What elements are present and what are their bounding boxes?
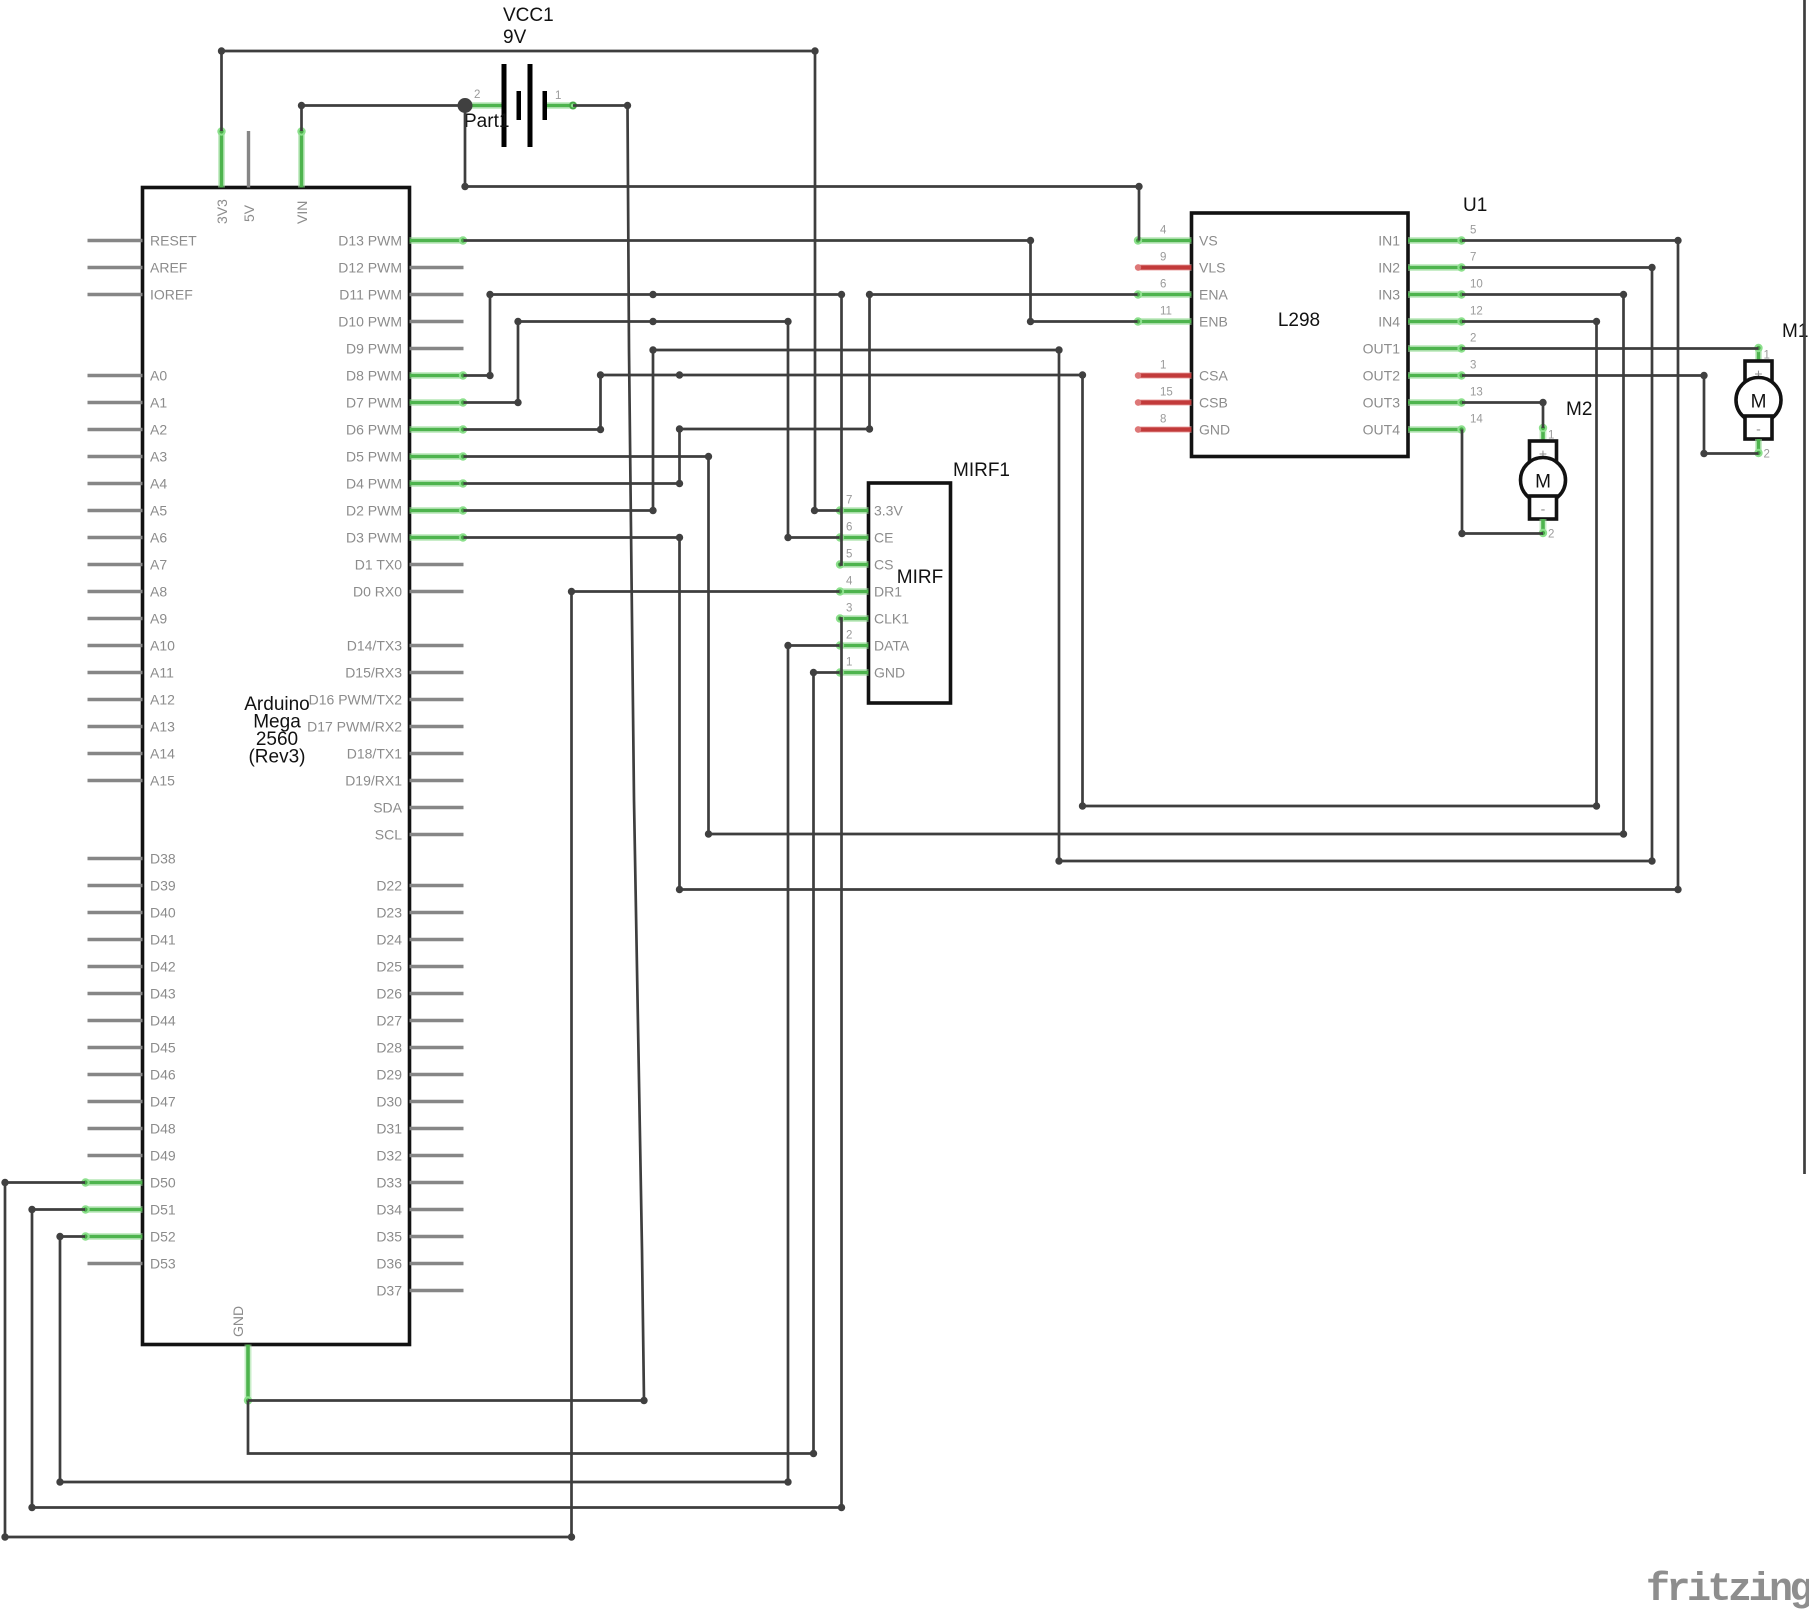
svg-text:VIN: VIN bbox=[294, 201, 310, 224]
junction bend MIRF-GND riser bbox=[810, 1450, 817, 1457]
battery VCC1 9V (Part1) bbox=[464, 5, 577, 147]
junction joint on D7-CE run bbox=[649, 318, 656, 325]
MIRF1 radio module body bbox=[869, 483, 951, 703]
svg-text:D19/RX1: D19/RX1 bbox=[345, 773, 402, 789]
svg-text:D39: D39 bbox=[150, 878, 176, 894]
svg-text:-: - bbox=[1541, 501, 1546, 517]
svg-text:IN4: IN4 bbox=[1378, 314, 1400, 330]
wire OUT3-M2.1 bbox=[1462, 403, 1543, 429]
MIRF pin 7 3.3V bbox=[840, 507, 869, 514]
junction bend D3 bbox=[676, 534, 683, 541]
svg-text:D9 PWM: D9 PWM bbox=[346, 341, 402, 357]
svg-text:1: 1 bbox=[1160, 360, 1166, 372]
junction bend 3V3 top-right bbox=[811, 47, 818, 54]
M2 plus terminal box bbox=[1530, 441, 1557, 464]
svg-text:13: 13 bbox=[1470, 387, 1483, 399]
svg-text:D42: D42 bbox=[150, 959, 176, 975]
svg-text:A1: A1 bbox=[150, 395, 167, 411]
M1 plus terminal box bbox=[1745, 361, 1772, 384]
Arduino pin D45 bbox=[88, 1046, 143, 1049]
Arduino pin D52 bbox=[85, 1233, 143, 1240]
junction bend D7 top bbox=[514, 318, 521, 325]
svg-text:OUT4: OUT4 bbox=[1363, 422, 1401, 438]
svg-text:IOREF: IOREF bbox=[150, 287, 193, 303]
Arduino pin D2 PWM bbox=[410, 507, 464, 514]
Arduino pin A6 bbox=[88, 536, 143, 539]
junction bend DR1 riser bbox=[568, 1533, 575, 1540]
svg-text:D16 PWM/TX2: D16 PWM/TX2 bbox=[309, 692, 403, 708]
MIRF pin 5 CS bbox=[840, 561, 869, 568]
svg-text:12: 12 bbox=[1470, 306, 1483, 318]
Arduino pin D31 bbox=[410, 1127, 464, 1130]
junction bend IN3 low-left bbox=[705, 830, 712, 837]
Arduino pin D11 PWM bbox=[410, 293, 464, 296]
Arduino pin D23 bbox=[410, 911, 464, 914]
junction bend M1.2 low bbox=[1700, 450, 1707, 457]
Arduino pin D37 bbox=[410, 1289, 464, 1292]
svg-text:A6: A6 bbox=[150, 530, 167, 546]
L298 pin 7 IN2 bbox=[1408, 264, 1462, 271]
Arduino pin A5 bbox=[88, 509, 143, 512]
svg-text:D10 PWM: D10 PWM bbox=[338, 314, 402, 330]
Arduino pin D14/TX3 bbox=[410, 644, 464, 647]
wire GND to MIRF GND bbox=[248, 673, 840, 1454]
svg-text:D12 PWM: D12 PWM bbox=[338, 260, 402, 276]
Arduino pin D27 bbox=[410, 1019, 464, 1022]
Arduino pin A14 bbox=[88, 752, 143, 755]
svg-text:D44: D44 bbox=[150, 1013, 176, 1029]
junction bend at CE bbox=[784, 534, 791, 541]
Arduino pin D10 PWM bbox=[410, 320, 464, 323]
junction bend 3V3 top-left bbox=[218, 47, 225, 54]
svg-text:CSA: CSA bbox=[1199, 368, 1228, 384]
svg-text:7: 7 bbox=[846, 495, 852, 507]
svg-text:5: 5 bbox=[846, 549, 852, 561]
svg-text:(Rev3): (Rev3) bbox=[248, 747, 305, 768]
battery plate short 2 bbox=[543, 91, 548, 120]
svg-text:2: 2 bbox=[846, 630, 852, 642]
Arduino pin 3V3 (connected) bbox=[218, 131, 225, 188]
wire 9V+ to VIN riser bbox=[302, 104, 466, 107]
M1 pin 1 leg bbox=[1755, 348, 1762, 362]
wire 9V+ VIN drop bbox=[300, 106, 303, 132]
wire D13-ENB bbox=[464, 241, 1138, 322]
svg-text:D18/TX1: D18/TX1 bbox=[347, 746, 402, 762]
L298 pin 14 OUT4 bbox=[1408, 426, 1462, 433]
svg-text:A0: A0 bbox=[150, 368, 167, 384]
junction bend at DATA bbox=[784, 642, 791, 649]
svg-text:SCL: SCL bbox=[375, 827, 402, 843]
svg-text:VS: VS bbox=[1199, 233, 1218, 249]
MIRF pin 2 DATA bbox=[840, 642, 869, 649]
svg-text:1: 1 bbox=[846, 657, 852, 669]
svg-text:D15/RX3: D15/RX3 bbox=[345, 665, 402, 681]
junction bend IN3 low-right bbox=[1620, 830, 1627, 837]
L298 motor driver U1 body bbox=[1192, 213, 1409, 457]
L298 pin 8 GND bbox=[1138, 426, 1192, 433]
Arduino pin D42 bbox=[88, 965, 143, 968]
Arduino pin GND (bottom, connected) bbox=[245, 1345, 252, 1402]
wire OUT4-M2.2 bbox=[1462, 430, 1543, 534]
wire 9V+ to L298 VS bbox=[465, 106, 1139, 241]
svg-text:D17 PWM/RX2: D17 PWM/RX2 bbox=[307, 719, 402, 735]
svg-text:D41: D41 bbox=[150, 932, 176, 948]
svg-text:D40: D40 bbox=[150, 905, 176, 921]
svg-text:fritzing: fritzing bbox=[1646, 1568, 1809, 1613]
L298 pin 13 OUT3 bbox=[1408, 399, 1462, 406]
svg-text:D29: D29 bbox=[376, 1067, 402, 1083]
wire D51-CLK1 bbox=[32, 619, 842, 1508]
junction bend M2.2 bbox=[1458, 530, 1465, 537]
svg-text:1: 1 bbox=[555, 90, 561, 102]
Arduino pin D39 bbox=[88, 884, 143, 887]
Arduino pin D3 PWM bbox=[410, 534, 464, 541]
junction bend D8 bbox=[486, 372, 493, 379]
Arduino pin A7 bbox=[88, 563, 143, 566]
svg-text:8: 8 bbox=[1160, 414, 1166, 426]
svg-text:A12: A12 bbox=[150, 692, 175, 708]
svg-text:A2: A2 bbox=[150, 422, 167, 438]
L298 pin 3 OUT2 bbox=[1408, 372, 1462, 379]
svg-text:A15: A15 bbox=[150, 773, 175, 789]
junction bend D50 bbox=[1, 1179, 8, 1186]
Arduino pin D35 bbox=[410, 1235, 464, 1238]
Arduino pin D12 PWM bbox=[410, 266, 464, 269]
svg-text:SDA: SDA bbox=[373, 800, 402, 816]
svg-text:10: 10 bbox=[1470, 279, 1483, 291]
junction bend D5 bbox=[705, 453, 712, 460]
junction bend IN4 low-right bbox=[1593, 802, 1600, 809]
Arduino pin D13 PWM bbox=[410, 237, 464, 244]
svg-text:D1 TX0: D1 TX0 bbox=[355, 557, 402, 573]
Arduino pin D17 PWM/RX2 bbox=[410, 725, 464, 728]
junction bend D8 top bbox=[486, 291, 493, 298]
svg-text:CSB: CSB bbox=[1199, 395, 1228, 411]
Arduino pin A3 bbox=[88, 455, 143, 458]
Arduino pin D43 bbox=[88, 992, 143, 995]
Arduino pin D5 PWM bbox=[410, 453, 464, 460]
svg-text:A8: A8 bbox=[150, 584, 167, 600]
wire 3V3-3.3V bbox=[222, 51, 840, 511]
Arduino pin D28 bbox=[410, 1046, 464, 1049]
svg-text:D33: D33 bbox=[376, 1175, 402, 1191]
svg-text:L298: L298 bbox=[1278, 310, 1320, 331]
svg-text:M2: M2 bbox=[1566, 399, 1592, 420]
Arduino pin D7 PWM bbox=[410, 399, 464, 406]
Arduino pin D53 bbox=[88, 1262, 143, 1265]
L298 pin 5 IN1 bbox=[1408, 237, 1462, 244]
svg-text:4: 4 bbox=[846, 576, 853, 588]
svg-text:MIRF1: MIRF1 bbox=[953, 460, 1010, 481]
wire D3-IN1 bbox=[464, 241, 1679, 890]
battery pin 2 leg bbox=[465, 102, 502, 109]
svg-text:9: 9 bbox=[1160, 252, 1166, 264]
L298 pin 6 ENA bbox=[1138, 291, 1192, 298]
MIRF pin 1 GND bbox=[840, 669, 869, 676]
svg-text:D31: D31 bbox=[376, 1121, 402, 1137]
junction joint on D8-CS run bbox=[649, 291, 656, 298]
svg-text:11: 11 bbox=[1160, 306, 1172, 318]
svg-text:VCC1: VCC1 bbox=[503, 5, 554, 26]
svg-text:5: 5 bbox=[1470, 225, 1476, 237]
junction bend D2 bbox=[649, 507, 656, 514]
svg-text:D11 PWM: D11 PWM bbox=[339, 287, 402, 303]
Arduino pin A11 bbox=[88, 671, 143, 674]
MIRF pin 4 DR1 bbox=[840, 588, 869, 595]
svg-text:D30: D30 bbox=[376, 1094, 402, 1110]
svg-text:D36: D36 bbox=[376, 1256, 402, 1272]
Arduino pin D30 bbox=[410, 1100, 464, 1103]
Arduino pin D47 bbox=[88, 1100, 143, 1103]
M2 pin 1 leg bbox=[1540, 428, 1547, 442]
svg-text:D32: D32 bbox=[376, 1148, 402, 1164]
svg-text:2: 2 bbox=[1470, 333, 1476, 345]
Arduino pin D4 PWM bbox=[410, 480, 464, 487]
junction bend at IN1 bbox=[1674, 237, 1681, 244]
svg-text:ENB: ENB bbox=[1199, 314, 1228, 330]
svg-text:D50: D50 bbox=[150, 1175, 176, 1191]
junction bend battery- bbox=[624, 102, 631, 109]
svg-text:IN2: IN2 bbox=[1378, 260, 1400, 276]
junction bend D4 up bbox=[676, 425, 683, 432]
svg-text:ENA: ENA bbox=[1199, 287, 1228, 303]
junction bend D51 bbox=[28, 1206, 35, 1213]
svg-text:MIRF: MIRF bbox=[897, 567, 943, 588]
Arduino pin A2 bbox=[88, 428, 143, 431]
junction bend IN2 low-right bbox=[1648, 857, 1655, 864]
M1 motor circle bbox=[1736, 378, 1781, 423]
junction bend D6 bbox=[597, 426, 604, 433]
svg-text:6: 6 bbox=[846, 522, 852, 534]
battery plate long 2 bbox=[528, 64, 533, 147]
junction bend at IN4 bbox=[1593, 318, 1600, 325]
svg-text:D24: D24 bbox=[376, 932, 402, 948]
svg-text:GND: GND bbox=[230, 1306, 246, 1337]
Arduino pin VIN (connected) bbox=[298, 131, 305, 188]
junction bend IN4 low-left bbox=[1079, 802, 1086, 809]
junction bend D52 bbox=[56, 1233, 63, 1240]
Arduino pin D15/RX3 bbox=[410, 671, 464, 674]
junction bend ENA riser bbox=[866, 425, 873, 432]
svg-text:A7: A7 bbox=[150, 557, 167, 573]
Arduino pin A12 bbox=[88, 698, 143, 701]
L298 pin 2 OUT1 bbox=[1408, 345, 1462, 352]
Arduino pin D32 bbox=[410, 1154, 464, 1157]
wire OUT2-M1.2 bbox=[1462, 376, 1759, 454]
svg-text:3: 3 bbox=[1470, 360, 1476, 372]
svg-text:D5 PWM: D5 PWM bbox=[346, 449, 402, 465]
Arduino pin SCL bbox=[410, 833, 464, 836]
wire D7-CE bbox=[464, 322, 840, 538]
junction bend D7 bbox=[514, 399, 521, 406]
Arduino pin A4 bbox=[88, 482, 143, 485]
svg-text:D2 PWM: D2 PWM bbox=[346, 503, 402, 519]
Arduino pin SDA bbox=[410, 806, 464, 809]
svg-text:DATA: DATA bbox=[874, 638, 910, 654]
junction bend IN2 low-left bbox=[1055, 857, 1062, 864]
svg-text:2: 2 bbox=[1764, 449, 1770, 461]
wire D52-DATA bbox=[60, 646, 840, 1483]
svg-text:U1: U1 bbox=[1463, 195, 1487, 216]
svg-text:2: 2 bbox=[1548, 529, 1554, 541]
junction bend D50 low bbox=[1, 1533, 8, 1540]
battery plate long 1 bbox=[502, 64, 507, 147]
svg-text:D34: D34 bbox=[376, 1202, 402, 1218]
junction bend ENA top bbox=[866, 291, 873, 298]
M1 minus terminal box bbox=[1745, 416, 1772, 439]
Arduino pin D24 bbox=[410, 938, 464, 941]
svg-text:D46: D46 bbox=[150, 1067, 176, 1083]
svg-text:D25: D25 bbox=[376, 959, 402, 975]
Arduino pin D26 bbox=[410, 992, 464, 995]
Arduino pin D22 bbox=[410, 884, 464, 887]
junction bend at MIRF 3.3V bbox=[811, 507, 818, 514]
junction bend IN2 drop bbox=[1055, 346, 1062, 353]
svg-text:D4 PWM: D4 PWM bbox=[346, 476, 402, 492]
L298 pin 15 CSB bbox=[1138, 399, 1192, 406]
Arduino pin A13 bbox=[88, 725, 143, 728]
svg-text:D3 PWM: D3 PWM bbox=[346, 530, 402, 546]
svg-text:GND: GND bbox=[874, 665, 905, 681]
Arduino pin D40 bbox=[88, 911, 143, 914]
junction bend D13 bbox=[1027, 237, 1034, 244]
L298 pin 1 CSA bbox=[1138, 372, 1192, 379]
svg-text:-: - bbox=[1756, 421, 1761, 437]
Arduino pin 5V (unconnected) bbox=[247, 131, 250, 188]
Arduino pin D29 bbox=[410, 1073, 464, 1076]
junction bend D52 low bbox=[56, 1478, 63, 1485]
L298 pin 9 VLS bbox=[1138, 264, 1192, 271]
svg-text:IN1: IN1 bbox=[1378, 233, 1400, 249]
junction bend at IN2 bbox=[1648, 264, 1655, 271]
junction bend D2 up bbox=[649, 346, 656, 353]
Arduino pin D8 PWM bbox=[410, 372, 464, 379]
svg-text:IN3: IN3 bbox=[1378, 287, 1400, 303]
MIRF pin 3 CLK1 bbox=[840, 615, 869, 622]
svg-text:M: M bbox=[1751, 392, 1767, 413]
wire D50-DR1 bbox=[5, 592, 840, 1538]
svg-text:DR1: DR1 bbox=[874, 584, 902, 600]
motor M1 bbox=[1736, 321, 1808, 461]
junction bend DATA riser bbox=[784, 1478, 791, 1485]
svg-text:3: 3 bbox=[846, 603, 852, 615]
M1 pin 2 leg bbox=[1755, 439, 1762, 454]
svg-text:D47: D47 bbox=[150, 1094, 176, 1110]
svg-text:D8 PWM: D8 PWM bbox=[346, 368, 402, 384]
svg-text:D13 PWM: D13 PWM bbox=[338, 233, 402, 249]
svg-text:A13: A13 bbox=[150, 719, 175, 735]
Arduino pin A9 bbox=[88, 617, 143, 620]
Arduino pin A10 bbox=[88, 644, 143, 647]
svg-text:A9: A9 bbox=[150, 611, 167, 627]
battery plate short 1 bbox=[517, 91, 522, 120]
wire D2-IN2 bbox=[464, 268, 1653, 862]
svg-text:D43: D43 bbox=[150, 986, 176, 1002]
svg-text:CE: CE bbox=[874, 530, 893, 546]
MIRF pin 6 CE bbox=[840, 534, 869, 541]
L298 pin 12 IN4 bbox=[1408, 318, 1462, 325]
junction bend CE riser bbox=[784, 318, 791, 325]
svg-text:D48: D48 bbox=[150, 1121, 176, 1137]
svg-text:D14/TX3: D14/TX3 bbox=[347, 638, 402, 654]
Arduino pin D48 bbox=[88, 1127, 143, 1130]
junction bend D6 up bbox=[597, 371, 604, 378]
junction joint on D6 run bbox=[676, 371, 683, 378]
wire OUT1-M1.1 bbox=[1462, 347, 1759, 350]
svg-text:A5: A5 bbox=[150, 503, 167, 519]
junction bend M1.2 bbox=[1700, 372, 1707, 379]
junction bend D4 bbox=[676, 480, 683, 487]
junction bend CLK1 riser bbox=[838, 1504, 845, 1511]
Arduino pin D6 PWM bbox=[410, 426, 464, 433]
junction bend at IN3 bbox=[1620, 291, 1627, 298]
svg-text:D51: D51 bbox=[150, 1202, 176, 1218]
svg-text:A3: A3 bbox=[150, 449, 167, 465]
wire D6-IN4 bbox=[464, 322, 1597, 807]
wire D8-CS bbox=[464, 295, 842, 565]
svg-text:3V3: 3V3 bbox=[214, 199, 230, 224]
svg-text:5V: 5V bbox=[241, 204, 257, 222]
svg-text:D38: D38 bbox=[150, 851, 176, 867]
svg-text:9V: 9V bbox=[503, 27, 527, 48]
motor M2 bbox=[1521, 399, 1593, 541]
junction bend at DR1 bbox=[568, 588, 575, 595]
junction bend 9V+ bbox=[461, 183, 468, 190]
svg-text:7: 7 bbox=[1470, 252, 1476, 264]
junction bend ENB bbox=[1027, 318, 1034, 325]
svg-text:D6 PWM: D6 PWM bbox=[346, 422, 402, 438]
L298 pin 11 ENB bbox=[1138, 318, 1192, 325]
junction bend VIN bbox=[298, 102, 305, 109]
svg-text:CLK1: CLK1 bbox=[874, 611, 909, 627]
Arduino pin D51 bbox=[85, 1206, 143, 1213]
svg-text:6: 6 bbox=[1160, 279, 1166, 291]
svg-text:A4: A4 bbox=[150, 476, 167, 492]
svg-text:D23: D23 bbox=[376, 905, 402, 921]
svg-text:14: 14 bbox=[1470, 414, 1483, 426]
wire D4-ENA bbox=[464, 295, 1138, 484]
Arduino pin D1 TX0 bbox=[410, 563, 464, 566]
svg-text:D22: D22 bbox=[376, 878, 402, 894]
Arduino Mega 2560 (Rev3) body bbox=[143, 188, 410, 1345]
svg-text:Part1: Part1 bbox=[464, 111, 509, 132]
svg-text:D49: D49 bbox=[150, 1148, 176, 1164]
junction bend at VS riser bbox=[1135, 183, 1142, 190]
svg-text:D37: D37 bbox=[376, 1283, 402, 1299]
M2 pin 2 leg bbox=[1540, 519, 1547, 534]
svg-text:D45: D45 bbox=[150, 1040, 176, 1056]
svg-text:AREF: AREF bbox=[150, 260, 187, 276]
Arduino pin A15 bbox=[88, 779, 143, 782]
svg-text:D7 PWM: D7 PWM bbox=[346, 395, 402, 411]
Arduino pin D38 bbox=[88, 857, 143, 860]
Arduino pin D36 bbox=[410, 1262, 464, 1265]
svg-text:RESET: RESET bbox=[150, 233, 197, 249]
Arduino pin IOREF bbox=[88, 293, 143, 296]
Arduino pin D25 bbox=[410, 965, 464, 968]
Arduino pin D0 RX0 bbox=[410, 590, 464, 593]
junction bend IN4 drop bbox=[1079, 371, 1086, 378]
svg-text:OUT3: OUT3 bbox=[1363, 395, 1401, 411]
junction bend at MIRF GND bbox=[810, 669, 817, 676]
svg-text:3.3V: 3.3V bbox=[874, 503, 903, 519]
svg-text:2: 2 bbox=[474, 89, 480, 101]
Arduino pin D16 PWM/TX2 bbox=[410, 698, 464, 701]
wire D5-IN3 bbox=[464, 295, 1624, 835]
Arduino pin D50 bbox=[85, 1179, 143, 1186]
junction bend M2.1 bbox=[1539, 399, 1546, 406]
Arduino pin D49 bbox=[88, 1154, 143, 1157]
